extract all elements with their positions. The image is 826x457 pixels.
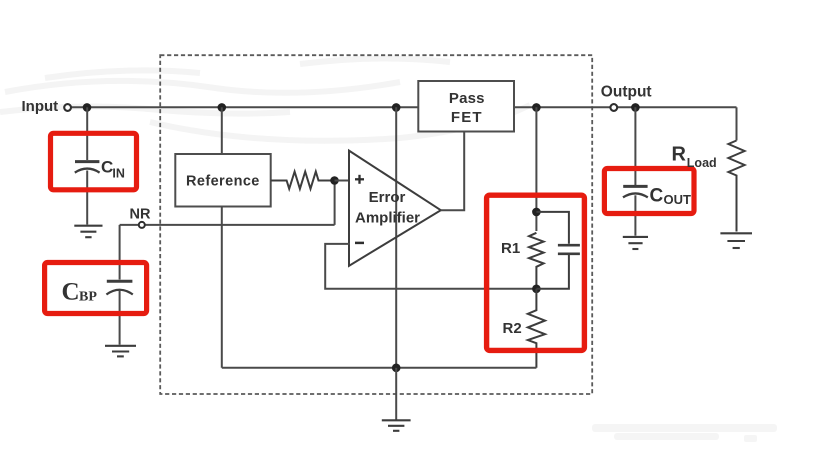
junction dot COUT <box>631 103 640 112</box>
capacitor CIN <box>75 162 100 173</box>
resistor R2 <box>528 289 545 368</box>
input terminal circle <box>64 104 71 111</box>
junction dot reference drop <box>218 103 227 112</box>
junction dot ground rail <box>392 364 401 373</box>
NR terminal circle <box>139 222 145 228</box>
wire: RLoad branch <box>736 107 738 140</box>
resistor R1 <box>529 233 544 289</box>
svg-text:R: R <box>672 144 687 166</box>
wire: ground stem <box>395 368 397 420</box>
ground (main) <box>382 420 411 431</box>
op-amp - pin <box>355 242 364 245</box>
wire: supply line through op-amp <box>395 107 397 368</box>
junction dot R1 top / Cff <box>532 208 541 217</box>
svg-text:Pass: Pass <box>449 90 485 107</box>
svg-text:R2: R2 <box>503 320 522 337</box>
capacitor COUT <box>623 186 648 197</box>
ground (COUT) <box>623 237 648 249</box>
wire: COUT to ground <box>634 195 636 235</box>
red highlight box COUT <box>604 169 694 214</box>
wire: pass FET output to output terminal <box>514 106 737 108</box>
capacitor CBP <box>106 281 132 294</box>
watermark arcs top-left <box>0 58 530 140</box>
red highlight box CBP <box>45 263 147 314</box>
red highlight box R1 R2 <box>487 195 585 350</box>
svg-text:IN: IN <box>112 166 125 180</box>
op-amp U1 error amplifier <box>349 151 441 266</box>
dashed IC boundary box <box>160 55 592 394</box>
svg-text:BP: BP <box>79 290 97 305</box>
junction dot resistor / +input / NR <box>330 176 339 185</box>
wire: feedback to - input <box>325 244 536 289</box>
wire: CIN to ground <box>86 171 88 225</box>
svg-text:Input: Input <box>22 98 59 115</box>
svg-text:Load: Load <box>687 156 717 170</box>
red highlight box CIN <box>51 133 137 190</box>
wire: bottom ground rail <box>222 367 537 369</box>
wire: rail to reference box <box>221 107 223 154</box>
wire: top input rail <box>71 106 418 108</box>
junction dot input/CIN <box>83 103 92 112</box>
svg-text:R1: R1 <box>501 240 520 257</box>
svg-text:Amplifier: Amplifier <box>355 209 420 226</box>
reference box U2 <box>175 154 270 207</box>
junction dot op-amp supply <box>392 103 401 112</box>
svg-text:NR: NR <box>130 207 151 223</box>
wire: CIN vertical <box>86 107 88 160</box>
wire: NR horizontal <box>120 224 335 226</box>
output terminal circle <box>610 104 617 111</box>
svg-text:C: C <box>62 279 80 306</box>
wire: to op-amp + input <box>335 180 351 182</box>
svg-text:Output: Output <box>601 83 652 100</box>
svg-text:Error: Error <box>369 189 406 206</box>
ground (CBP) <box>105 346 136 357</box>
junction dot R1/R2 feedback node <box>532 285 541 294</box>
wire: reference box bottom to ground rail <box>221 207 223 368</box>
svg-text:C: C <box>650 186 664 207</box>
resistor RLoad <box>728 141 744 232</box>
wire: sense line down to R1 <box>535 107 537 231</box>
wire: NR riser to resistor junction <box>334 181 336 225</box>
resistor (reference series) <box>271 172 335 189</box>
wire: COUT vertical <box>634 107 636 185</box>
wire: CBP vertical <box>119 225 121 280</box>
svg-text:OUT: OUT <box>664 192 692 207</box>
svg-text:Reference: Reference <box>186 174 260 190</box>
wire: CBP to ground <box>119 290 121 344</box>
op-amp + pin <box>355 175 364 184</box>
ground (RLoad) <box>720 233 752 248</box>
junction dot output sense <box>532 103 541 112</box>
wire: op-amp output to pass FET gate <box>441 132 464 211</box>
watermark smudge bottom-right <box>592 424 777 442</box>
svg-text:FET: FET <box>451 109 483 126</box>
ground (CIN) <box>74 226 102 238</box>
capacitor Cff parallel with R1 <box>536 212 580 289</box>
pass FET box Q1 <box>418 81 514 132</box>
